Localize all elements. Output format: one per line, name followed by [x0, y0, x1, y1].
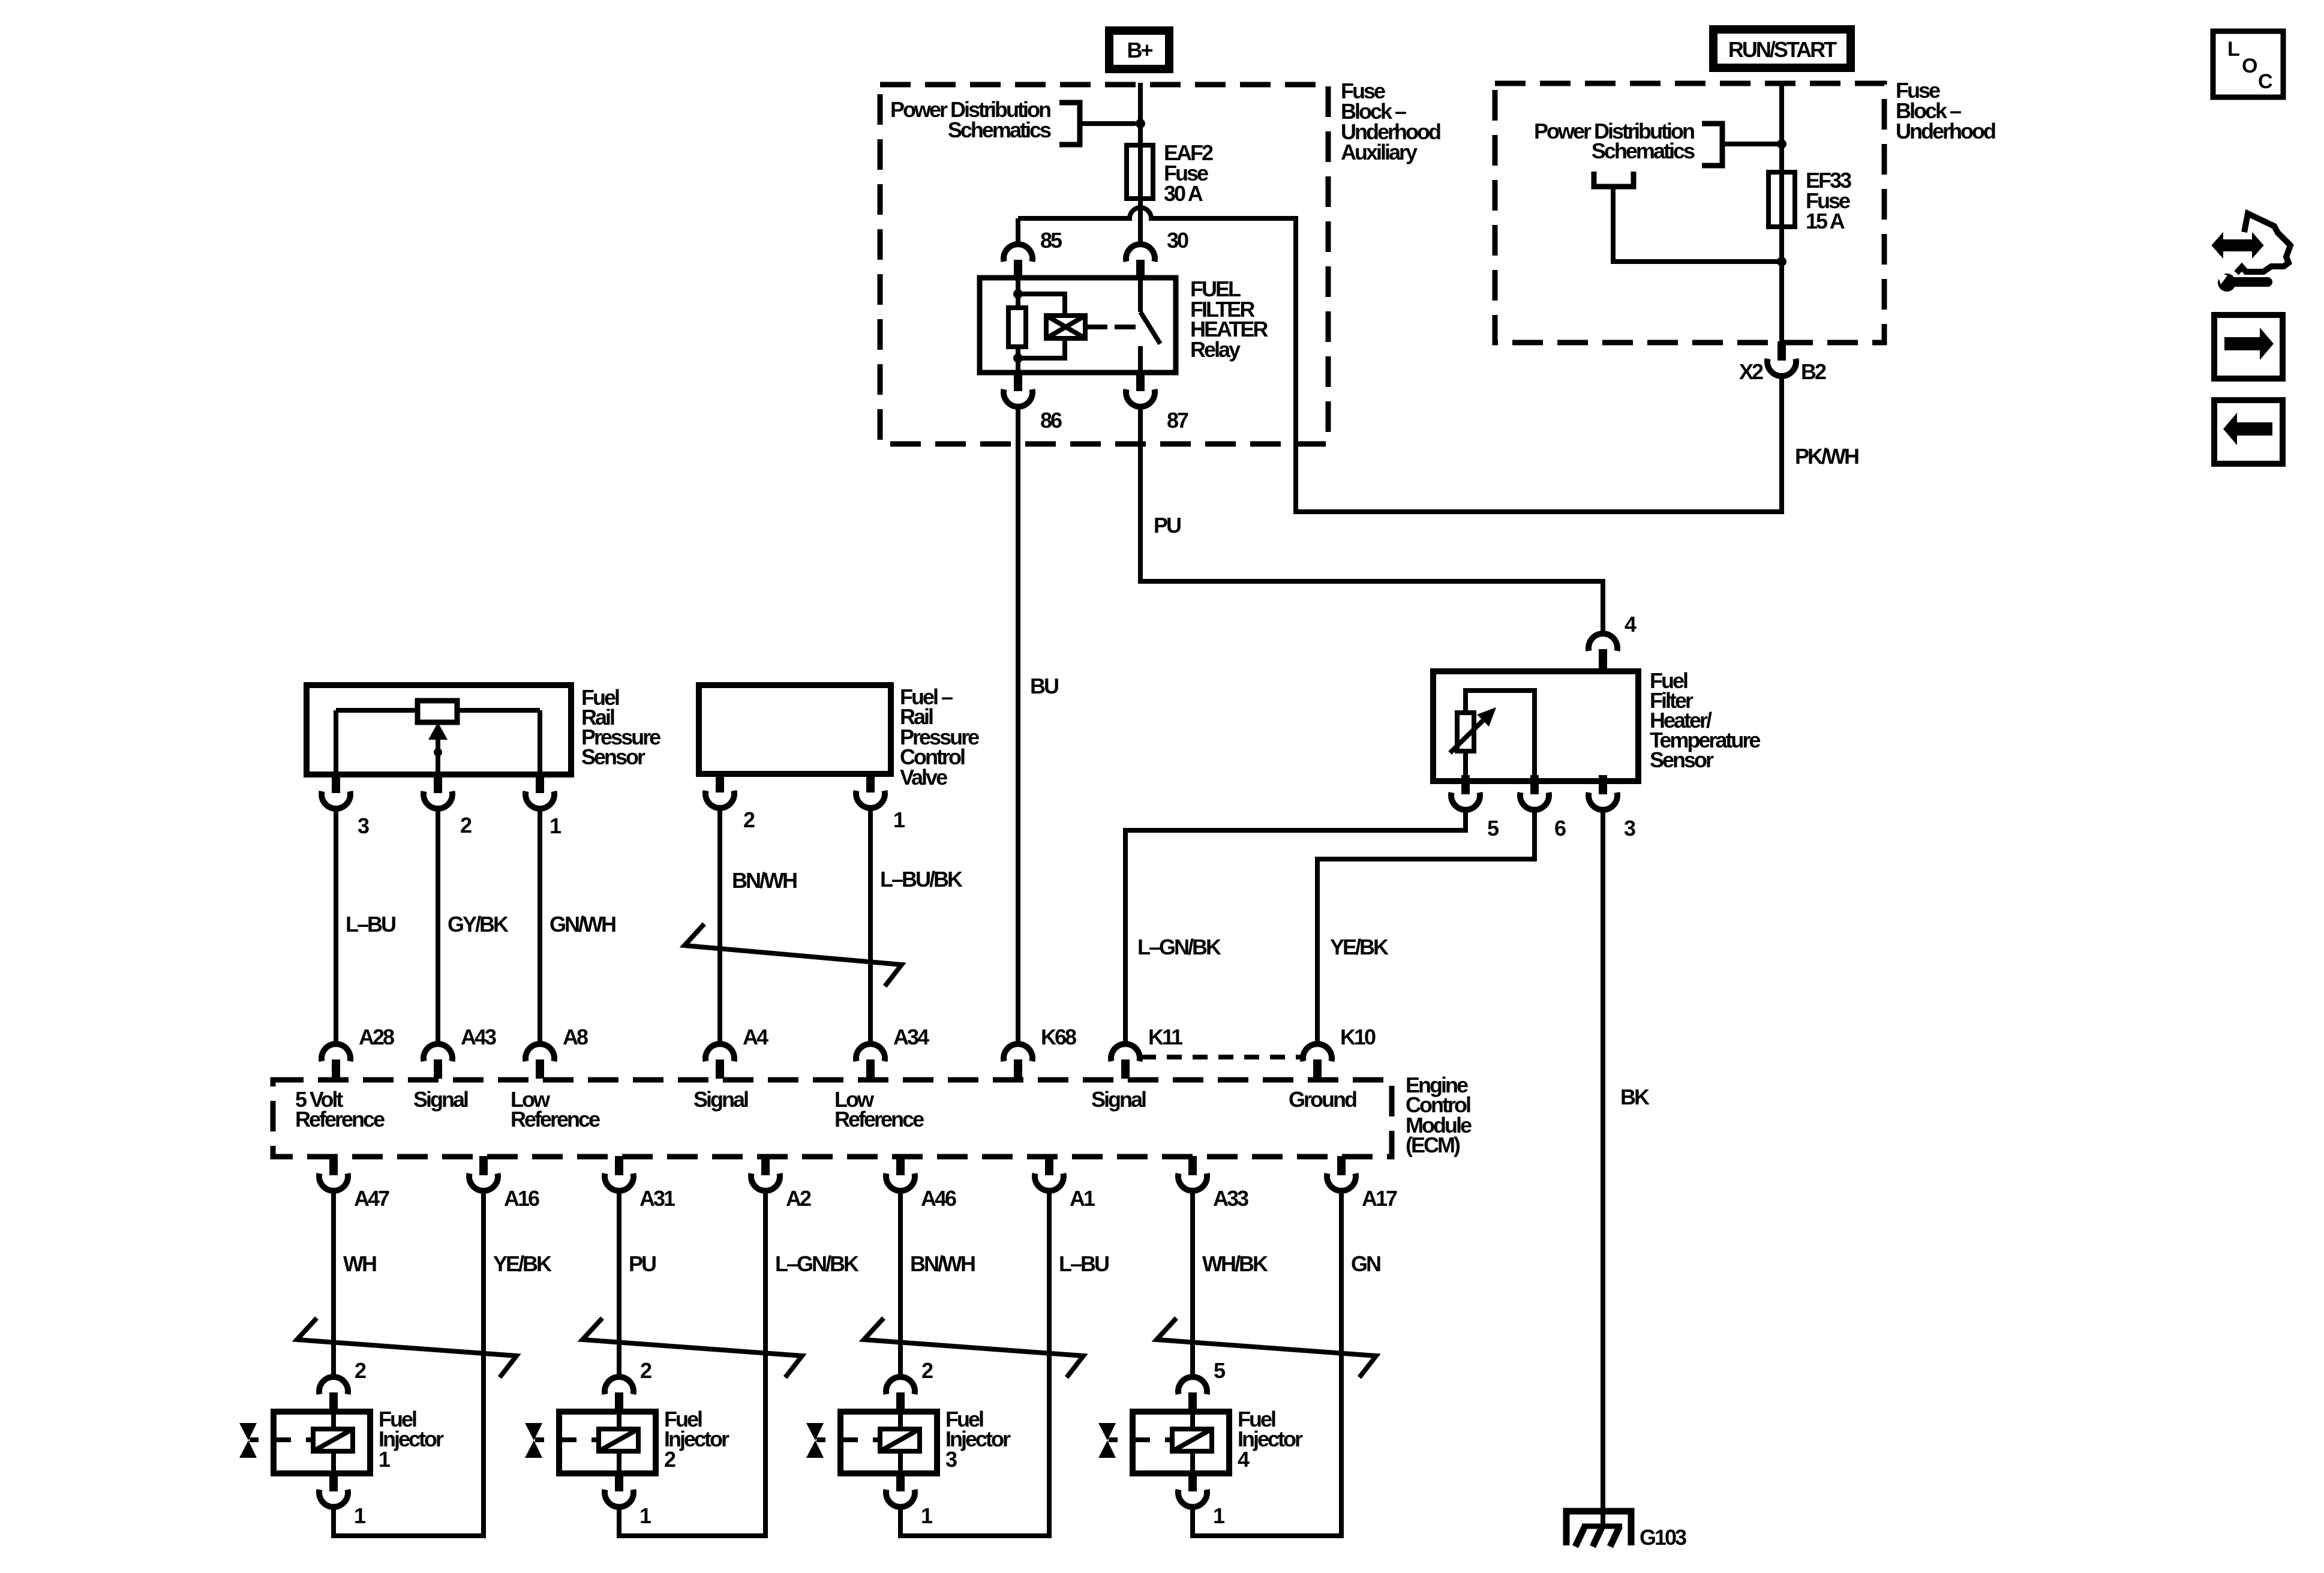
- svg-text:1: 1: [379, 1447, 391, 1472]
- svg-text:A34: A34: [893, 1025, 929, 1049]
- wire BN/WH ECM to fuel injector 3 pin 2: [898, 1190, 903, 1378]
- svg-text:Auxiliary: Auxiliary: [1341, 140, 1418, 164]
- relay coil solenoid element: [1018, 294, 1085, 358]
- label Engine Control Module (ECM): [1406, 1073, 1472, 1157]
- wire EAF2 to relay pin 30: [1138, 199, 1143, 245]
- wire WH ECM to fuel injector 1 pin 2: [331, 1190, 336, 1378]
- ECM pin A33 connector: [1178, 1173, 1207, 1191]
- harness crossing mark (valve wires): [684, 924, 902, 986]
- svg-text:15 A: 15 A: [1806, 209, 1845, 233]
- harness crossing mark (injector 2 wires): [582, 1318, 802, 1377]
- svg-text:L–BU: L–BU: [1059, 1251, 1109, 1276]
- svg-text:PU: PU: [1154, 513, 1181, 538]
- fuel injector 2 box: [559, 1412, 656, 1473]
- label Fuse Block - Underhood Auxiliary: [1341, 79, 1440, 164]
- svg-text:2: 2: [460, 813, 472, 837]
- ECM pin A31 connector: [605, 1173, 633, 1191]
- wire YE/BK ECM to fuel injector 1 pin 1: [334, 1190, 484, 1536]
- svg-text:K11: K11: [1148, 1025, 1183, 1049]
- relay actuator dashed link: [1086, 325, 1136, 329]
- wire L-BU/BK valve 1 to ECM A34: [868, 807, 873, 1044]
- svg-text:L–BU/BK: L–BU/BK: [880, 867, 963, 891]
- node junction B+/power distribution: [1136, 119, 1145, 128]
- relay switch contact: [1140, 278, 1160, 373]
- thermistor element: [1450, 691, 1535, 781]
- ECM pin A16 connector: [469, 1173, 498, 1191]
- svg-text:L–GN/BK: L–GN/BK: [775, 1251, 859, 1276]
- fuel injector 2 pin 2 connector: [605, 1377, 633, 1394]
- svg-text:A31: A31: [639, 1186, 675, 1211]
- svg-text:3: 3: [945, 1447, 957, 1472]
- wire PK/WH feed rail with hop over B+ wire: [1018, 208, 1782, 512]
- fuel injector 3 pin 1 connector: [886, 1490, 915, 1507]
- label Fuel Injector 2: [664, 1407, 729, 1472]
- relay coil resistor: [1008, 278, 1026, 373]
- svg-text:Schematics: Schematics: [948, 118, 1051, 142]
- fuel injector 4 valve symbol: [1098, 1423, 1116, 1458]
- svg-text:6: 6: [1554, 816, 1566, 840]
- fuel injector 4 solenoid: [1172, 1412, 1212, 1473]
- svg-text:3: 3: [1624, 816, 1635, 840]
- svg-text:PU: PU: [629, 1251, 656, 1276]
- svg-text:Reference: Reference: [834, 1107, 924, 1131]
- svg-text:2: 2: [355, 1358, 366, 1383]
- label Fuel Filter Heater/Temperature Sensor: [1650, 668, 1760, 772]
- svg-text:Sensor: Sensor: [581, 745, 645, 769]
- svg-text:G103: G103: [1640, 1525, 1686, 1550]
- sensor pin 1 connector: [526, 791, 554, 809]
- relay FUEL FILTER HEATER box: [980, 278, 1176, 373]
- ECM pin A4 connector: [705, 1044, 734, 1061]
- wire L-BU sensor 3 to ECM A28: [334, 807, 338, 1044]
- svg-text:A1: A1: [1070, 1186, 1095, 1211]
- wire GN ECM to fuel injector 4 pin 1: [1193, 1190, 1341, 1536]
- svg-text:BN/WH: BN/WH: [910, 1251, 975, 1276]
- relay pin 85 connector: [1004, 244, 1032, 262]
- wire B+ to EAF2 fuse: [1138, 83, 1143, 172]
- fuel injector 3 solenoid: [880, 1412, 920, 1473]
- ECM pin A34 connector: [856, 1044, 885, 1061]
- svg-text:L–GN/BK: L–GN/BK: [1137, 935, 1221, 959]
- ECM pin A43 connector: [424, 1044, 452, 1061]
- svg-text:A17: A17: [1362, 1186, 1397, 1211]
- ground G103: [1566, 1511, 1631, 1547]
- fuse block underhood dashed box: [1495, 83, 1884, 343]
- label Fuel Rail Pressure Sensor: [581, 685, 660, 769]
- svg-text:Signal: Signal: [693, 1087, 748, 1112]
- svg-text:B+: B+: [1127, 38, 1152, 62]
- dashed internal link K11 to K10: [1141, 1055, 1302, 1059]
- svg-text:86: 86: [1040, 408, 1062, 433]
- fuel injector 3 box: [840, 1412, 937, 1473]
- ECM pin A17 connector: [1327, 1173, 1356, 1191]
- svg-text:L–BU: L–BU: [346, 912, 395, 936]
- fuel rail pressure control valve box: [699, 685, 891, 774]
- label Fuel Injector 4: [1238, 1407, 1303, 1472]
- svg-text:Underhood: Underhood: [1896, 119, 1995, 143]
- fuel injector 2 actuator dashed link: [535, 1437, 599, 1442]
- fuel rail pressure sensor box: [307, 685, 571, 775]
- wire YE/BK heater 6 to ECM K10: [1317, 809, 1535, 1044]
- svg-text:Ground: Ground: [1289, 1087, 1356, 1112]
- fuel injector 3 pin 2 connector: [886, 1377, 915, 1394]
- wire GN/WH sensor 1 to ECM A8: [538, 807, 542, 1044]
- fuel filter heater/temperature sensor box: [1433, 671, 1638, 781]
- fuel injector 1 actuator dashed link: [250, 1437, 313, 1442]
- svg-text:2: 2: [743, 807, 755, 832]
- valve pin 2 connector: [705, 791, 734, 808]
- ECM internal label 5 Volt Reference: [295, 1087, 385, 1131]
- fuel injector 4 box: [1133, 1412, 1229, 1473]
- wire L-GN/BK heater 5 to ECM K11: [1125, 809, 1466, 1044]
- harness crossing mark (injector 1 wires): [297, 1318, 517, 1377]
- fuel injector 1 solenoid: [313, 1412, 353, 1473]
- node junction below EF33: [1777, 257, 1786, 266]
- label FUEL FILTER HEATER Relay: [1190, 277, 1268, 362]
- ECM pin K11 connector: [1111, 1044, 1140, 1061]
- sensor wiper arrow: [428, 722, 448, 775]
- svg-text:4: 4: [1625, 612, 1637, 637]
- svg-text:WH: WH: [343, 1251, 376, 1276]
- svg-text:Relay: Relay: [1190, 337, 1241, 362]
- svg-text:O: O: [2242, 55, 2257, 77]
- label Fuel Injector 3: [945, 1407, 1011, 1472]
- node coil top junction: [1013, 289, 1023, 299]
- svg-text:Reference: Reference: [511, 1107, 600, 1131]
- svg-text:4: 4: [1238, 1447, 1250, 1472]
- fuel injector 4 pin 1 connector: [1178, 1490, 1207, 1507]
- icon back arrow box: [2214, 400, 2283, 464]
- wire L–BU ECM to fuel injector 3 pin 1: [900, 1190, 1049, 1536]
- svg-text:WH/BK: WH/BK: [1202, 1251, 1268, 1276]
- svg-text:YE/BK: YE/BK: [493, 1251, 552, 1276]
- wire L–GN/BK ECM to fuel injector 2 pin 1: [619, 1190, 765, 1536]
- node coil bottom junction: [1013, 353, 1023, 363]
- sensor pin 3 connector: [322, 791, 350, 809]
- svg-text:GN/WH: GN/WH: [550, 912, 615, 936]
- icon forward arrow box: [2214, 315, 2283, 379]
- fuel injector 2 pin 1 connector: [605, 1490, 633, 1507]
- svg-text:A28: A28: [359, 1025, 394, 1049]
- svg-text:1: 1: [921, 1503, 933, 1528]
- heater pin 3 connector: [1589, 792, 1617, 810]
- power symbol B+: [1109, 31, 1169, 69]
- svg-text:1: 1: [893, 807, 905, 832]
- connector X2 B2: [1767, 359, 1796, 376]
- svg-text:(ECM): (ECM): [1406, 1133, 1460, 1157]
- svg-text:1: 1: [550, 813, 562, 838]
- svg-text:X2: X2: [1739, 359, 1763, 384]
- ECM internal label Low Reference (A8): [511, 1087, 600, 1131]
- heater pin 4 connector: [1589, 634, 1617, 651]
- svg-text:Valve: Valve: [900, 765, 947, 789]
- svg-text:BK: BK: [1620, 1085, 1650, 1109]
- svg-text:1: 1: [354, 1503, 366, 1528]
- node wiper junction: [434, 748, 442, 757]
- svg-text:A2: A2: [786, 1186, 811, 1211]
- ECM internal label Low Reference (A34): [834, 1087, 924, 1131]
- fuse EAF2 30A: [1127, 140, 1213, 206]
- svg-text:Sensor: Sensor: [1650, 748, 1714, 772]
- label Fuel Injector 1: [379, 1407, 444, 1472]
- svg-text:30: 30: [1167, 228, 1188, 253]
- wire BK heater 3 to ground G103: [1601, 809, 1605, 1526]
- ECM pin A1 connector: [1035, 1173, 1064, 1191]
- svg-text:2: 2: [921, 1358, 933, 1383]
- ECM pin K68 connector: [1004, 1044, 1032, 1061]
- svg-text:5: 5: [1214, 1358, 1226, 1383]
- fuel injector 1 pin 1 connector: [319, 1490, 348, 1507]
- harness crossing mark (injector 4 wires): [1157, 1318, 1376, 1377]
- wire BN/WH valve 2 to ECM A4: [717, 807, 722, 1044]
- svg-text:L: L: [2227, 38, 2239, 61]
- svg-text:A43: A43: [461, 1025, 496, 1049]
- heater pin 5 connector: [1451, 792, 1480, 810]
- svg-text:30 A: 30 A: [1164, 181, 1203, 206]
- wire stub down to relay pin 85: [1016, 218, 1020, 245]
- label Fuse Block - Underhood: [1896, 78, 1995, 143]
- power distribution schematics reference (left): [890, 97, 1136, 145]
- fuel injector 4 actuator dashed link: [1109, 1437, 1172, 1442]
- icon LOC box: [2213, 31, 2283, 97]
- power distribution stub bracket: [1594, 172, 1777, 262]
- wire EF33 to connector X2/B2: [1779, 227, 1784, 343]
- label Fuel Rail Pressure Control Valve: [900, 685, 979, 789]
- svg-text:87: 87: [1167, 408, 1188, 433]
- svg-text:BU: BU: [1030, 674, 1058, 698]
- svg-text:BN/WH: BN/WH: [732, 868, 797, 893]
- engine control module dashed box: [273, 1080, 1392, 1157]
- valve pin 1 connector: [856, 791, 885, 808]
- sensor pin 2 connector: [424, 791, 452, 809]
- fuel injector 3 valve symbol: [806, 1423, 824, 1458]
- svg-text:85: 85: [1040, 228, 1062, 253]
- ECM pin A28 connector: [322, 1044, 350, 1061]
- svg-text:GY/BK: GY/BK: [448, 912, 509, 936]
- fuel injector 2 solenoid: [599, 1412, 638, 1473]
- svg-text:C: C: [2258, 70, 2272, 93]
- svg-text:Reference: Reference: [295, 1107, 385, 1131]
- relay pin 87 connector: [1126, 389, 1155, 407]
- svg-text:2: 2: [640, 1358, 651, 1383]
- relay pin 86 connector: [1004, 389, 1032, 407]
- svg-text:A4: A4: [743, 1025, 768, 1049]
- svg-text:A8: A8: [563, 1025, 588, 1049]
- svg-text:YE/BK: YE/BK: [1330, 935, 1389, 959]
- svg-text:A33: A33: [1213, 1186, 1248, 1211]
- sensor potentiometer resistor: [336, 701, 540, 775]
- fuel injector 1 valve symbol: [239, 1423, 257, 1458]
- ECM pin A46 connector: [886, 1173, 915, 1191]
- wire PU ECM to fuel injector 2 pin 2: [617, 1190, 621, 1378]
- fuel injector 1 pin 2 connector: [319, 1377, 348, 1394]
- node junction RUN/START feed: [1777, 139, 1786, 149]
- svg-text:Signal: Signal: [413, 1087, 468, 1112]
- svg-text:5: 5: [1487, 816, 1499, 840]
- svg-text:Signal: Signal: [1091, 1087, 1146, 1112]
- svg-text:K68: K68: [1041, 1025, 1076, 1049]
- fuel injector 2 valve symbol: [525, 1423, 542, 1458]
- svg-text:1: 1: [639, 1503, 651, 1528]
- svg-text:RUN/START: RUN/START: [1728, 37, 1837, 62]
- svg-text:K10: K10: [1340, 1025, 1376, 1049]
- svg-text:A46: A46: [921, 1186, 956, 1211]
- svg-text:1: 1: [1213, 1503, 1225, 1528]
- svg-text:PK/WH: PK/WH: [1795, 444, 1858, 469]
- relay pin 30 connector: [1126, 244, 1155, 262]
- heater pin 6 connector: [1520, 792, 1549, 810]
- wire PU relay 87 to heater pin 4: [1140, 406, 1603, 635]
- ECM pin K10 connector: [1303, 1044, 1332, 1061]
- wire RUN/START to EF33 fuse: [1779, 83, 1784, 172]
- wire GY/BK sensor 2 to ECM A43: [436, 807, 440, 1044]
- wire WH/BK ECM to fuel injector 4 pin 5: [1190, 1190, 1195, 1378]
- svg-text:GN: GN: [1351, 1251, 1380, 1276]
- svg-text:2: 2: [664, 1447, 675, 1472]
- power distribution schematics reference (right): [1534, 119, 1777, 166]
- fuse block underhood auxiliary dashed box: [880, 85, 1328, 444]
- power symbol RUN/START: [1713, 29, 1851, 68]
- ECM pin A47 connector: [319, 1173, 348, 1191]
- fuel injector 3 actuator dashed link: [816, 1437, 880, 1442]
- wire BU relay 86 to ECM K68: [1016, 406, 1020, 1044]
- fuse EF33 15A: [1768, 168, 1851, 233]
- icon vehicle with arrow and wrench: [2213, 214, 2290, 292]
- fuel injector 4 pin 5 connector: [1178, 1377, 1207, 1394]
- svg-text:Schematics: Schematics: [1592, 139, 1695, 163]
- svg-text:B2: B2: [1801, 359, 1826, 384]
- fuel injector 1 box: [274, 1412, 370, 1473]
- harness crossing mark (injector 3 wires): [864, 1318, 1083, 1377]
- svg-text:A47: A47: [354, 1186, 389, 1211]
- svg-text:A16: A16: [504, 1186, 539, 1211]
- svg-text:3: 3: [358, 813, 369, 838]
- ECM pin A2 connector: [751, 1173, 780, 1191]
- ECM pin A8 connector: [526, 1044, 554, 1061]
